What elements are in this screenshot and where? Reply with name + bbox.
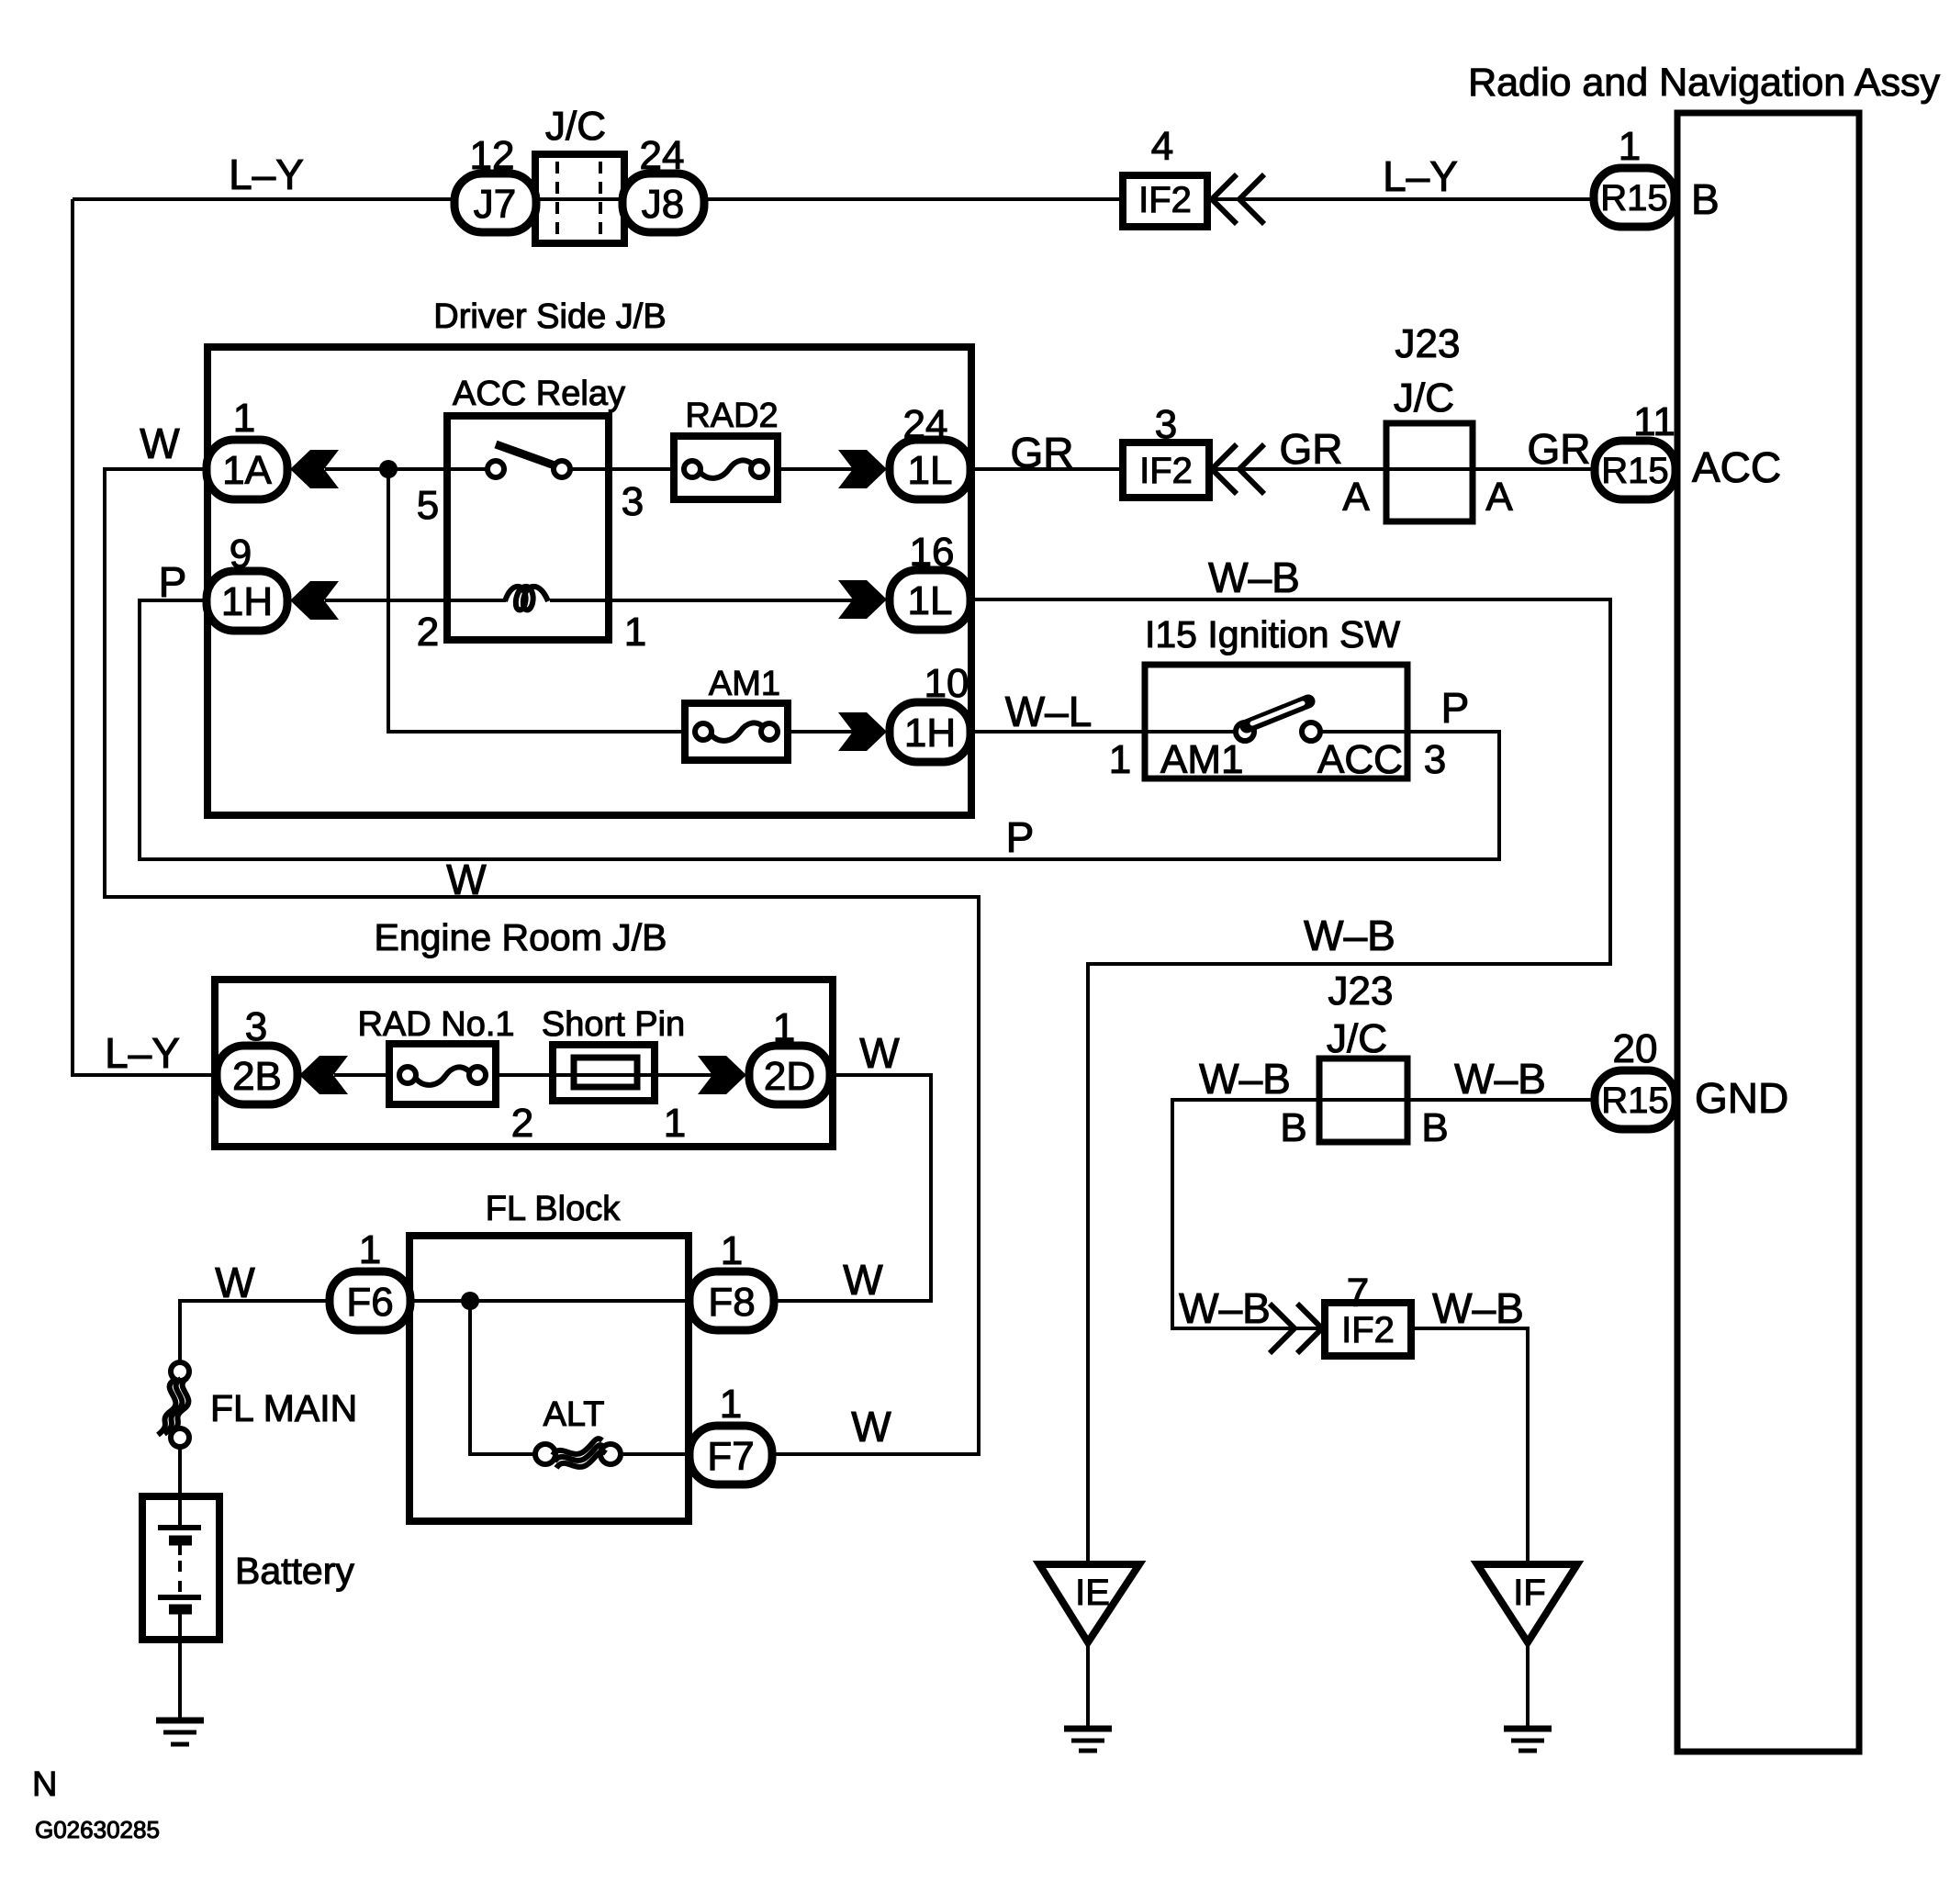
svg-text:GND: GND (1695, 1074, 1788, 1122)
svg-text:1: 1 (1109, 737, 1131, 782)
svg-text:2: 2 (417, 610, 439, 655)
svg-text:A: A (1342, 475, 1370, 520)
svg-text:FL MAIN: FL MAIN (210, 1387, 357, 1429)
svg-text:Driver Side J/B: Driver Side J/B (433, 297, 666, 336)
svg-text:1L: 1L (908, 448, 953, 493)
svg-text:IF2: IF2 (1138, 180, 1192, 220)
svg-text:IF: IF (1513, 1573, 1546, 1613)
svg-text:W: W (446, 856, 487, 903)
svg-text:W: W (843, 1256, 883, 1304)
svg-text:R15: R15 (1601, 451, 1668, 491)
svg-text:1H: 1H (904, 711, 956, 756)
svg-text:B: B (1280, 1105, 1306, 1150)
svg-text:W–B: W–B (1208, 554, 1300, 601)
svg-text:P: P (159, 558, 187, 606)
svg-text:Short Pin: Short Pin (542, 1005, 685, 1044)
svg-text:J23: J23 (1395, 321, 1461, 366)
svg-text:4: 4 (1151, 124, 1173, 169)
svg-text:1: 1 (359, 1227, 381, 1272)
svg-text:B: B (1691, 175, 1720, 223)
svg-text:L–Y: L–Y (1383, 152, 1458, 200)
svg-text:L–Y: L–Y (229, 151, 304, 198)
svg-text:J/C: J/C (545, 104, 606, 149)
svg-text:ACC Relay: ACC Relay (453, 375, 625, 413)
svg-text:W: W (215, 1259, 255, 1306)
svg-text:1: 1 (721, 1228, 743, 1273)
svg-text:W: W (851, 1403, 891, 1450)
svg-text:W–B: W–B (1179, 1284, 1271, 1332)
svg-text:W–L: W–L (1005, 688, 1093, 735)
svg-text:W–B: W–B (1304, 912, 1395, 959)
svg-text:1: 1 (624, 610, 646, 655)
svg-text:1A: 1A (222, 448, 272, 493)
svg-text:N: N (32, 1765, 57, 1804)
svg-text:1: 1 (664, 1101, 686, 1146)
svg-text:AM1: AM1 (1160, 737, 1243, 782)
svg-text:24: 24 (903, 402, 948, 447)
svg-text:5: 5 (417, 483, 439, 528)
svg-text:ALT: ALT (544, 1395, 605, 1434)
svg-text:W–B: W–B (1432, 1284, 1524, 1332)
svg-text:Radio and Navigation Assy: Radio and Navigation Assy (1468, 61, 1940, 105)
svg-text:J7: J7 (474, 182, 516, 227)
svg-text:F6: F6 (346, 1280, 393, 1325)
svg-text:7: 7 (1347, 1271, 1369, 1316)
svg-text:AM1: AM1 (709, 665, 780, 703)
svg-text:16: 16 (910, 530, 955, 575)
svg-text:20: 20 (1613, 1026, 1658, 1071)
svg-text:Engine Room J/B: Engine Room J/B (374, 916, 667, 958)
svg-text:J/C: J/C (1394, 375, 1454, 420)
svg-text:ACC: ACC (1317, 737, 1403, 782)
svg-text:W–B: W–B (1199, 1055, 1291, 1103)
svg-text:F8: F8 (708, 1280, 755, 1325)
svg-text:ACC: ACC (1692, 443, 1781, 491)
svg-text:J/C: J/C (1327, 1016, 1387, 1061)
svg-text:F7: F7 (707, 1434, 754, 1479)
svg-text:RAD No.1: RAD No.1 (357, 1005, 514, 1044)
svg-text:3: 3 (622, 479, 644, 524)
svg-text:P: P (1441, 684, 1470, 732)
svg-text:B: B (1421, 1105, 1448, 1150)
svg-text:IF2: IF2 (1341, 1310, 1395, 1350)
svg-text:L–Y: L–Y (105, 1029, 180, 1077)
svg-text:Battery: Battery (235, 1550, 354, 1592)
svg-text:3: 3 (1155, 402, 1177, 447)
svg-text:FL Block: FL Block (486, 1190, 621, 1228)
svg-text:J8: J8 (642, 182, 684, 227)
svg-text:W: W (859, 1029, 900, 1077)
svg-text:2: 2 (511, 1101, 533, 1146)
svg-text:P: P (1006, 813, 1035, 861)
svg-text:1: 1 (720, 1382, 742, 1427)
svg-text:RAD2: RAD2 (685, 397, 778, 435)
svg-text:1: 1 (233, 396, 255, 441)
svg-text:3: 3 (1424, 737, 1446, 782)
svg-text:1: 1 (1619, 124, 1641, 169)
svg-text:GR: GR (1528, 425, 1591, 473)
svg-text:11: 11 (1633, 399, 1675, 444)
svg-text:GR: GR (1280, 425, 1343, 473)
svg-text:2B: 2B (232, 1054, 282, 1099)
svg-text:R15: R15 (1600, 178, 1667, 218)
svg-text:1: 1 (773, 1005, 795, 1050)
svg-text:I15 Ignition SW: I15 Ignition SW (1145, 613, 1400, 655)
svg-text:12: 12 (470, 133, 515, 178)
svg-text:GR: GR (1011, 429, 1074, 476)
svg-text:G02630285: G02630285 (35, 1816, 160, 1843)
svg-text:1H: 1H (221, 579, 273, 624)
svg-text:3: 3 (245, 1004, 267, 1049)
svg-text:R15: R15 (1601, 1081, 1668, 1121)
svg-text:A: A (1485, 475, 1513, 520)
svg-text:10: 10 (925, 661, 969, 706)
svg-text:2D: 2D (764, 1054, 815, 1099)
svg-text:9: 9 (230, 532, 252, 577)
svg-text:W–B: W–B (1454, 1055, 1546, 1103)
svg-text:1L: 1L (908, 578, 953, 623)
svg-text:24: 24 (640, 133, 685, 178)
svg-text:IE: IE (1075, 1573, 1110, 1613)
svg-text:IF2: IF2 (1139, 451, 1193, 491)
svg-text:W: W (140, 420, 180, 467)
svg-text:J23: J23 (1328, 969, 1394, 1014)
